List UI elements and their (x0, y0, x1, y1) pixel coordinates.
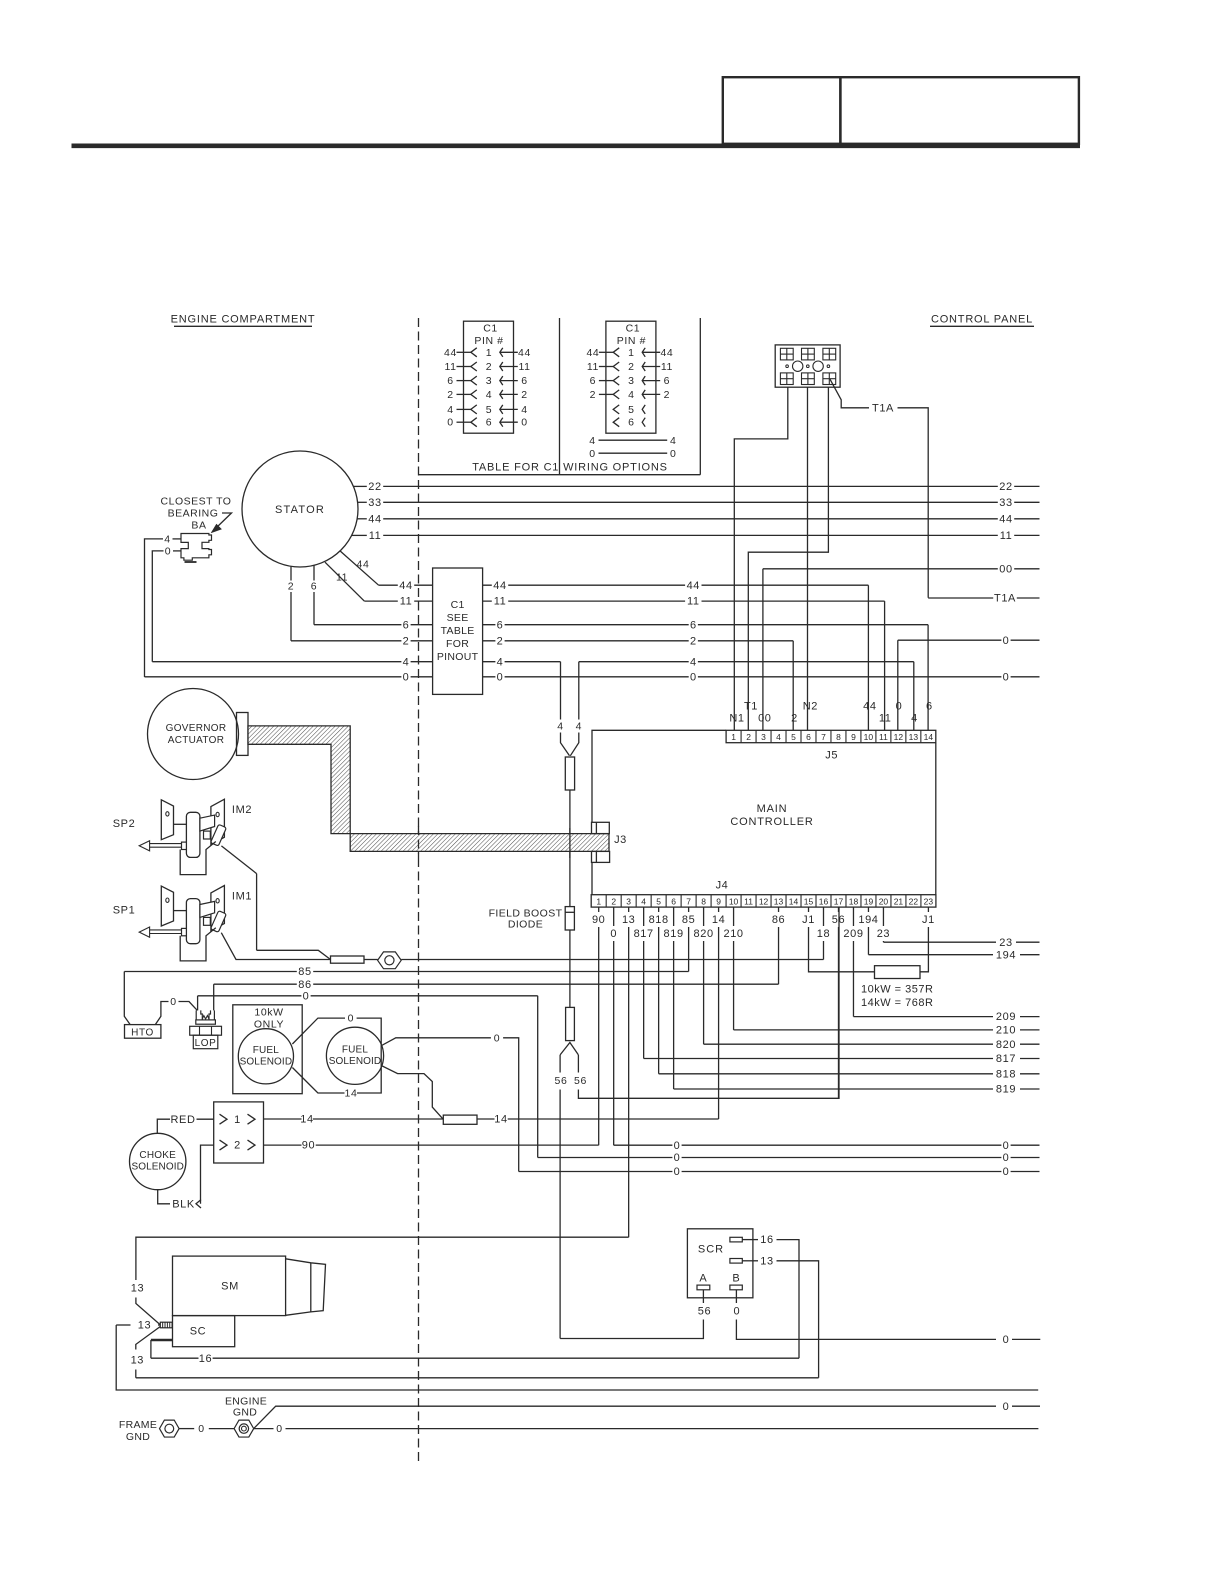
stator circle (242, 451, 358, 567)
svg-text:0: 0 (690, 671, 697, 683)
svg-text:4: 4 (403, 656, 410, 668)
wire J4 pin10 210 column (733, 907, 735, 926)
resistor R1 10kW/14kW (875, 966, 921, 979)
wire 16 from SCR to SC (777, 1240, 800, 1359)
wire J4 pin8 820 column (703, 907, 705, 926)
svg-text:16: 16 (760, 1234, 773, 1246)
svg-text:6: 6 (664, 375, 670, 387)
svg-text:T1A: T1A (994, 593, 1016, 605)
svg-text:11: 11 (879, 713, 892, 725)
svg-text:15: 15 (804, 896, 814, 906)
wire 0 drop from LOP row (197, 996, 199, 1011)
svg-text:22: 22 (368, 481, 381, 493)
svg-text:11: 11 (661, 361, 673, 373)
wire frame gnd to engine gnd (179, 1428, 194, 1430)
ignition module IM2 left plate (161, 800, 173, 840)
svg-text:0: 0 (1003, 1152, 1010, 1164)
svg-text:C1: C1 (451, 599, 465, 611)
field boost diode (565, 907, 574, 930)
wire J4 pin7 85 column (688, 907, 690, 912)
ignition module IM2 bracket arm (174, 823, 187, 825)
svg-text:0: 0 (610, 928, 617, 940)
svg-text:4: 4 (557, 720, 563, 732)
svg-text:44: 44 (586, 347, 599, 359)
svg-text:0: 0 (165, 546, 171, 558)
wire row 0 at J5 pin 12 (898, 639, 1002, 641)
wire J4 pin23 J1 column to resistor (927, 907, 929, 912)
wire left solenoid 0 loop top (292, 1018, 345, 1044)
wire 00 drop to J5 pin 3 (762, 569, 764, 731)
splice ferrule 56 (566, 1007, 575, 1040)
wire stator diagonal 11 (325, 562, 364, 601)
svg-text:HTO: HTO (131, 1027, 154, 1038)
engine/control boundary dashed line (418, 318, 420, 1461)
wire resistor to hex nut (364, 959, 378, 961)
wire row 23 (883, 941, 996, 943)
svg-text:6: 6 (521, 375, 527, 387)
svg-text:SCR: SCR (698, 1244, 724, 1256)
SCR box (687, 1229, 753, 1298)
svg-text:4: 4 (670, 435, 676, 447)
svg-text:44: 44 (660, 347, 673, 359)
svg-text:16: 16 (819, 896, 829, 906)
svg-text:22: 22 (999, 481, 1012, 493)
svg-text:0: 0 (170, 996, 176, 1008)
svg-text:44: 44 (518, 347, 531, 359)
svg-text:0: 0 (198, 1423, 204, 1435)
svg-text:5: 5 (486, 404, 492, 416)
svg-text:N2: N2 (803, 700, 818, 712)
svg-text:4: 4 (447, 404, 453, 416)
svg-text:18: 18 (817, 928, 830, 940)
svg-text:13: 13 (774, 896, 784, 906)
svg-text:817: 817 (996, 1053, 1016, 1065)
wire LOP 0 to right 0 row (537, 996, 539, 1158)
svg-text:1: 1 (234, 1114, 241, 1126)
J3 connector upper tab (592, 822, 610, 833)
wire 86 drop to LOP (213, 984, 215, 1010)
svg-text:11: 11 (587, 361, 599, 373)
svg-text:C1: C1 (626, 323, 641, 335)
svg-text:14: 14 (345, 1088, 358, 1100)
svg-text:0: 0 (1003, 1401, 1010, 1413)
wire J4 pin1 90 column (598, 907, 600, 912)
svg-text:8: 8 (701, 896, 706, 906)
wire J4 pin18 209 column (852, 907, 854, 926)
svg-text:11: 11 (494, 596, 507, 608)
frame ground stud (160, 1420, 180, 1437)
svg-text:4: 4 (497, 656, 504, 668)
ignition module IM2 upper bracket (200, 815, 215, 831)
wire row 0 second (538, 1157, 673, 1159)
svg-text:2: 2 (486, 361, 492, 373)
svg-text:SOLENOID: SOLENOID (329, 1056, 381, 1067)
svg-text:56: 56 (832, 914, 845, 926)
svg-text:13: 13 (622, 914, 635, 926)
svg-text:0: 0 (734, 1306, 741, 1318)
wire 85 drop to HTO (124, 972, 130, 1025)
wire stator tap 2 drop (290, 567, 292, 581)
ignition module IM2 right plate (211, 799, 225, 844)
svg-text:0: 0 (276, 1423, 282, 1435)
svg-text:10: 10 (864, 732, 874, 742)
wire row 13 to SCR (136, 1377, 819, 1379)
wire row 194 (868, 954, 993, 956)
wire 2 drop to J5 pin 5 (792, 641, 794, 731)
wire engine gnd diagonal row (254, 1406, 996, 1428)
ignition module IM1 right plate (211, 886, 225, 931)
wire 56 left leg (559, 1055, 561, 1073)
wire 56 right leg (577, 1055, 579, 1073)
svg-text:14: 14 (494, 1114, 507, 1126)
svg-text:1: 1 (596, 896, 601, 906)
svg-text:CLOSEST TO: CLOSEST TO (161, 496, 232, 508)
wire row 0 from LOP (198, 995, 302, 997)
wire right solenoid 14 out (381, 1066, 443, 1119)
svg-text:GND: GND (233, 1407, 257, 1419)
wire row 210 (734, 1029, 993, 1031)
svg-text:3: 3 (761, 732, 766, 742)
SC terminal tick (151, 1339, 173, 1342)
wire hex nut to J4 pin16 (401, 959, 823, 961)
svg-text:11: 11 (369, 530, 382, 542)
governor actuator circle (148, 689, 239, 780)
wire J4 pin19 194 column (867, 907, 869, 912)
svg-text:4: 4 (628, 389, 634, 401)
svg-text:GND: GND (126, 1431, 150, 1443)
svg-text:BLK: BLK (172, 1198, 195, 1210)
svg-text:IM1: IM1 (232, 891, 252, 903)
starter motor SM box (173, 1256, 286, 1316)
svg-text:0: 0 (589, 448, 595, 460)
wire row 818 (659, 1073, 993, 1075)
svg-text:0: 0 (1003, 1334, 1010, 1346)
splice crimp hatched (160, 1322, 172, 1328)
svg-text:00: 00 (999, 563, 1012, 575)
svg-text:0: 0 (1003, 1166, 1010, 1178)
svg-text:19: 19 (864, 896, 874, 906)
spark plug SP2 lead (150, 843, 182, 845)
svg-text:0: 0 (521, 417, 527, 429)
wire J4 pin4 817 column (643, 907, 645, 926)
svg-text:14: 14 (300, 1114, 313, 1126)
wire row 11 via C1 (364, 600, 398, 602)
svg-text:3: 3 (486, 375, 492, 387)
wire J4 pin9 14 column (718, 907, 720, 912)
svg-text:33: 33 (368, 497, 381, 509)
wire IM1 terminal diagonal to resistor row (221, 933, 330, 960)
wire engine gnd straight row (254, 1428, 274, 1430)
svg-text:6: 6 (486, 417, 492, 429)
svg-text:23: 23 (924, 896, 934, 906)
svg-text:6: 6 (311, 581, 317, 593)
wire right solenoid 0 to third 0 row (503, 1038, 519, 1172)
wire 56 split (560, 1043, 578, 1055)
wire row 820 (704, 1043, 993, 1045)
wire 4 left drop to splice (560, 662, 562, 720)
svg-text:A: A (699, 1273, 707, 1285)
svg-text:N1: N1 (729, 713, 744, 725)
wire row T1A to control panel (928, 597, 993, 599)
svg-text:0: 0 (303, 990, 310, 1002)
svg-text:6: 6 (806, 732, 811, 742)
wire row 4 right segment (579, 661, 689, 663)
svg-text:0: 0 (447, 417, 453, 429)
svg-text:0: 0 (497, 671, 504, 683)
svg-text:210: 210 (996, 1025, 1016, 1037)
wire row 4 via C1 left segment (152, 661, 401, 663)
splice ferrule upper (565, 757, 574, 790)
svg-text:6: 6 (671, 896, 676, 906)
choke solenoid circle (130, 1133, 186, 1189)
wire 0 drop to J5 pin 12 (897, 640, 899, 730)
svg-text:44: 44 (493, 580, 506, 592)
svg-text:10kW: 10kW (254, 1007, 283, 1019)
svg-text:STATOR: STATOR (275, 504, 325, 516)
svg-text:10kW = 357R: 10kW = 357R (861, 983, 933, 995)
wire 6 drop to J5 pin 14 (927, 625, 929, 731)
wire row 33 (358, 501, 367, 503)
option B jumper wire 4 (599, 439, 668, 441)
wire row 16 (150, 1340, 152, 1358)
wire row 0 first (614, 1144, 673, 1146)
svg-text:CONTROLLER: CONTROLLER (730, 816, 813, 828)
svg-text:2: 2 (521, 389, 527, 401)
svg-text:209: 209 (843, 928, 863, 940)
svg-text:4: 4 (486, 389, 492, 401)
svg-text:6: 6 (690, 619, 697, 631)
svg-text:ENGINE COMPARTMENT: ENGINE COMPARTMENT (171, 314, 316, 326)
wire over cable to diode (569, 828, 571, 858)
svg-text:23: 23 (999, 937, 1012, 949)
svg-text:2: 2 (288, 581, 294, 593)
wire row 85 (124, 971, 296, 973)
wire ferrule to diode (569, 790, 571, 907)
page top rule (72, 144, 1081, 149)
svg-text:2: 2 (403, 635, 410, 647)
svg-text:7: 7 (686, 896, 691, 906)
svg-text:13: 13 (131, 1283, 144, 1295)
ignition module IM2 lower tab (204, 831, 211, 839)
svg-text:4: 4 (776, 732, 781, 742)
svg-text:SP2: SP2 (113, 818, 136, 830)
wire row 819 (674, 1088, 993, 1090)
wire left solenoid 14 loop bottom (292, 1068, 344, 1094)
wire J4 pin6 819 column (673, 907, 675, 926)
svg-text:22: 22 (909, 896, 919, 906)
main controller box (592, 730, 726, 822)
bearing pointer arrow (216, 513, 232, 529)
option B jumper wire 0 (599, 452, 668, 454)
svg-text:13: 13 (909, 732, 919, 742)
wire HTO to 0 label to LOP (155, 1002, 168, 1025)
svg-text:PINOUT: PINOUT (437, 651, 479, 663)
svg-text:4: 4 (690, 656, 697, 668)
svg-text:4: 4 (164, 533, 170, 545)
governor actuator connector (237, 713, 249, 756)
svg-text:0: 0 (1003, 671, 1010, 683)
wire J4 pin15 J1 column to resistor (808, 907, 810, 912)
svg-text:0: 0 (674, 1152, 681, 1164)
svg-text:GOVERNOR: GOVERNOR (166, 723, 227, 734)
svg-text:86: 86 (298, 979, 311, 991)
svg-text:820: 820 (996, 1039, 1016, 1051)
ignition module IM1 base outline (180, 928, 216, 961)
resistor R2 inline (331, 956, 365, 963)
connector J4 strip (591, 895, 936, 907)
wire 13 down to bottom row (116, 1325, 1038, 1390)
boundary dashed line over cable (418, 826, 420, 858)
svg-text:2: 2 (746, 732, 751, 742)
svg-text:TABLE FOR C1 WIRING OPTIONS: TABLE FOR C1 WIRING OPTIONS (472, 462, 668, 474)
svg-text:J1: J1 (802, 914, 815, 926)
svg-text:1: 1 (486, 347, 492, 359)
wire N1 from T1A block to J5 pin 1 (734, 387, 788, 730)
wire T1 from T1A block to J5 pin 2 (748, 387, 828, 730)
svg-text:0: 0 (1003, 635, 1010, 647)
svg-text:2: 2 (234, 1140, 241, 1152)
svg-text:IM2: IM2 (232, 804, 252, 816)
box 10kW ONLY (233, 1005, 302, 1094)
svg-text:2: 2 (497, 635, 504, 647)
svg-text:PIN #: PIN # (617, 335, 646, 347)
svg-text:FOR: FOR (446, 638, 469, 650)
svg-text:B: B (732, 1273, 740, 1285)
svg-text:2: 2 (628, 361, 634, 373)
svg-text:RED: RED (170, 1114, 195, 1126)
ignition module IM2 coil (186, 812, 200, 857)
svg-text:ACTUATOR: ACTUATOR (168, 735, 224, 746)
wire row 0 third (519, 1171, 673, 1173)
svg-text:85: 85 (298, 966, 311, 978)
wire BLK from choke (158, 1190, 170, 1204)
svg-text:DIODE: DIODE (508, 919, 543, 931)
svg-text:10: 10 (729, 896, 739, 906)
wire RED to connector pin 1 (157, 1119, 170, 1134)
wire diode to splice ferrule (569, 930, 571, 1007)
svg-text:12: 12 (894, 732, 904, 742)
svg-text:44: 44 (368, 513, 381, 525)
table enclosure divider left (559, 318, 561, 475)
svg-text:1: 1 (731, 732, 736, 742)
svg-text:TABLE: TABLE (441, 625, 475, 637)
fuel solenoid right circle (326, 1027, 383, 1084)
svg-text:817: 817 (634, 928, 654, 940)
wire J4 pin2 0 column (613, 907, 615, 926)
svg-text:21: 21 (894, 896, 904, 906)
wire 13 from SCR down (777, 1261, 819, 1378)
wire row 86 (214, 983, 297, 985)
starter contactor SC box (173, 1316, 235, 1347)
wire row 2 via C1 (291, 640, 401, 642)
wire row 11 long (352, 534, 367, 536)
ignition module IM1 upper bracket (200, 901, 215, 917)
svg-text:SC: SC (190, 1326, 206, 1338)
wire J4 pin5 818 column (658, 907, 660, 912)
svg-text:14: 14 (924, 732, 934, 742)
terminal block screw circles (793, 361, 803, 371)
svg-text:44: 44 (687, 580, 700, 592)
svg-text:820: 820 (694, 928, 714, 940)
wire 4 right drop to splice (578, 662, 580, 720)
ignition module IM2 base outline (180, 842, 216, 875)
svg-text:CONTROL PANEL: CONTROL PANEL (931, 314, 1033, 326)
svg-text:12: 12 (759, 896, 769, 906)
ignition module IM1 coil (186, 899, 200, 944)
fuel solenoid left circle (238, 1029, 293, 1084)
svg-text:0: 0 (674, 1140, 681, 1152)
wire N2 from T1A block to J5 pin 6 (807, 387, 809, 730)
terminal block T1A (775, 345, 840, 387)
svg-text:6: 6 (497, 619, 504, 631)
wire row 00 (763, 568, 998, 570)
svg-text:90: 90 (592, 914, 605, 926)
svg-text:SOLENOID: SOLENOID (240, 1057, 292, 1068)
svg-text:56: 56 (698, 1306, 711, 1318)
svg-text:90: 90 (302, 1140, 315, 1152)
svg-text:11: 11 (400, 596, 413, 608)
svg-text:FRAME: FRAME (119, 1419, 157, 1431)
SCR terminal 13 (730, 1259, 742, 1264)
svg-text:44: 44 (357, 559, 370, 571)
wire J4 pin16 18 column (822, 907, 824, 926)
svg-text:11: 11 (744, 896, 753, 906)
wire 11 drop to J5 pin 11 (884, 601, 886, 730)
table enclosure bottom line (419, 474, 701, 476)
svg-text:2: 2 (690, 635, 697, 647)
svg-text:J3: J3 (614, 834, 627, 846)
svg-text:6: 6 (447, 375, 453, 387)
connector plug 1/2 box (214, 1102, 264, 1163)
wire stator diagonal 44 (340, 551, 378, 585)
ignition module IM1 left plate (161, 886, 173, 926)
wire row 14 (264, 1118, 302, 1120)
svg-text:0: 0 (670, 448, 676, 460)
connector table C1 option B (606, 321, 656, 433)
svg-text:0: 0 (1003, 1140, 1010, 1152)
svg-text:17: 17 (834, 896, 844, 906)
svg-text:2: 2 (590, 389, 596, 401)
wire row 6 via C1 (314, 624, 401, 626)
svg-text:6: 6 (628, 417, 634, 429)
table enclosure divider right (699, 318, 701, 475)
svg-text:11: 11 (444, 361, 456, 373)
wire 4 drop to J5 pin 13 (913, 662, 915, 731)
wire J4 pin20 23 column (882, 907, 884, 926)
wire row 0 via C1 (145, 676, 402, 678)
svg-text:T1: T1 (744, 700, 758, 712)
wire 13 into splice (116, 1324, 130, 1326)
spark plug SP1 lead (150, 929, 182, 931)
connector C1 pinout box (433, 568, 483, 694)
svg-text:11: 11 (336, 572, 348, 584)
svg-text:23: 23 (877, 928, 890, 940)
title block box left (723, 77, 841, 144)
svg-text:SP1: SP1 (113, 905, 136, 917)
svg-text:3: 3 (626, 896, 631, 906)
svg-text:14: 14 (712, 914, 725, 926)
connector J5 strip (726, 730, 936, 742)
svg-text:SOLENOID: SOLENOID (131, 1162, 183, 1173)
wire row 44 via C1 (379, 584, 398, 586)
svg-text:J4: J4 (716, 880, 729, 892)
svg-text:0: 0 (348, 1013, 354, 1025)
svg-text:3: 3 (628, 375, 634, 387)
engine ground stud (234, 1420, 254, 1437)
wire T1A label to T1A row (898, 408, 929, 598)
svg-text:J5: J5 (825, 750, 838, 762)
svg-text:11: 11 (687, 596, 700, 608)
